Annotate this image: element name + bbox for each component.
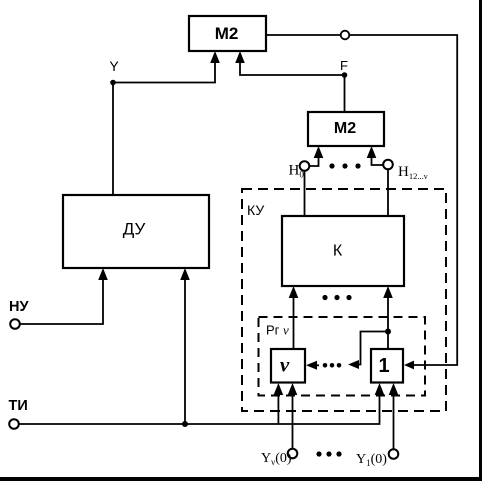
- svg-text:К: К: [333, 243, 343, 260]
- junction dot on TI line: [182, 421, 188, 427]
- wire: F node to top M2 input: [235, 51, 344, 75]
- svg-text:ТИ: ТИ: [9, 398, 28, 414]
- wire: TI line up to register cell v: [274, 383, 284, 424]
- wire: H12...v down to K: [387, 169, 389, 216]
- wire: junction down into register cell 1: [387, 332, 389, 350]
- node F junction dot: [342, 72, 348, 78]
- svg-text:М2: М2: [215, 24, 239, 43]
- svg-text:НУ: НУ: [9, 299, 29, 315]
- wire: H0 to lower M2 input: [309, 146, 323, 166]
- ellipsis between Y terminals: [316, 451, 341, 456]
- svg-text:Yν(0): Yν(0): [261, 451, 292, 467]
- block K: [282, 216, 404, 286]
- wire: Yv(0) up to register cell v: [288, 383, 298, 449]
- svg-text:Рг ν: Рг ν: [266, 323, 289, 338]
- dashed box KU: [242, 189, 446, 411]
- wire: junction bent arrow toward shift chain: [348, 332, 388, 370]
- wire: junction node up to K: [383, 286, 393, 332]
- arrow into register cell v (shift chain): [306, 361, 319, 370]
- terminal H0: [300, 161, 310, 171]
- terminal NU: [10, 319, 20, 329]
- ellipsis in shift chain: [323, 363, 342, 368]
- wire: Y node down to DU: [112, 83, 114, 196]
- terminal Yv(0): [288, 449, 298, 459]
- block 1 (register cell 1): [371, 349, 403, 383]
- ellipsis below K: [322, 295, 351, 300]
- svg-text:ДУ: ДУ: [123, 220, 146, 239]
- wire: TI junction up to DU: [180, 268, 190, 424]
- terminal H12...v: [383, 160, 393, 170]
- junction dot above register cell 1: [385, 329, 391, 335]
- wire: F node down to lower M2: [344, 75, 346, 112]
- svg-text:ν: ν: [280, 353, 290, 377]
- node Y junction dot: [110, 80, 116, 86]
- output terminal circle: [341, 31, 350, 40]
- wire: H0 down to K: [304, 171, 306, 216]
- svg-text:Y: Y: [109, 58, 119, 74]
- wire: TI clock line to register cell 1: [19, 383, 385, 424]
- block M2 (lower): [308, 112, 384, 146]
- dashed box Rg (register): [259, 317, 426, 396]
- block M2 (top): [189, 16, 266, 51]
- svg-text:КУ: КУ: [247, 202, 264, 218]
- wire: M2 output to terminal: [266, 34, 341, 36]
- block DU: [63, 195, 209, 268]
- wire: Y node to top M2 input: [113, 51, 220, 83]
- wire: Y1(0) up to register cell 1: [389, 383, 399, 449]
- svg-text:1: 1: [378, 355, 389, 377]
- terminal TI: [9, 419, 19, 429]
- wire: register cell v up to K: [289, 286, 299, 349]
- wire: H12...v to lower M2 input: [367, 146, 384, 165]
- ellipsis between H terminals: [329, 163, 360, 168]
- terminal Y1(0): [389, 449, 399, 459]
- wire: NU to DU: [20, 268, 108, 324]
- svg-text:М2: М2: [334, 120, 356, 137]
- page border bottom: [0, 477, 482, 481]
- svg-text:Y1(0): Y1(0): [356, 452, 387, 468]
- wire: feedback from terminal to register cell 1: [349, 35, 457, 369]
- svg-text:F: F: [340, 58, 348, 73]
- page border right: [479, 0, 482, 481]
- block nu (register cell v): [271, 349, 305, 383]
